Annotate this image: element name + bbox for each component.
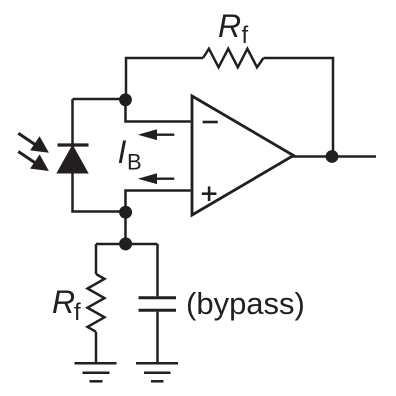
svg-text:f: f <box>242 22 249 49</box>
svg-text:f: f <box>74 299 81 326</box>
svg-text:(bypass): (bypass) <box>186 286 305 321</box>
svg-text:I: I <box>118 134 127 170</box>
svg-text:B: B <box>127 150 142 175</box>
svg-text:R: R <box>218 8 241 44</box>
svg-text:R: R <box>52 284 75 320</box>
